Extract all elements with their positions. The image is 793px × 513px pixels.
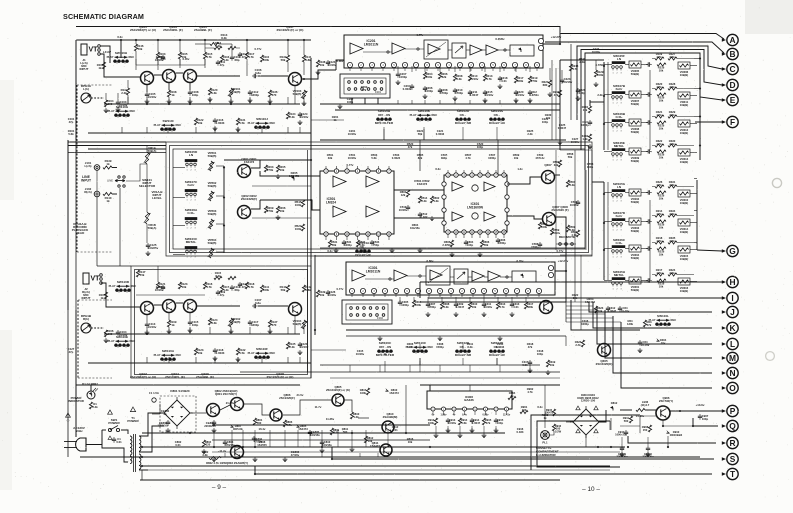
IC601 components below	[450, 240, 453, 247]
wire selector to VR1A	[126, 164, 147, 181]
capacitor C108	[189, 90, 191, 92]
resistor R mid row 250	[657, 247, 666, 250]
wire to node T	[255, 466, 712, 474]
resistor R601 between ICs	[406, 190, 409, 197]
wire q107 input area	[316, 60, 319, 67]
svg-text:ILLUMINATOR: ILLUMINATOR	[536, 453, 557, 457]
wire mid rail 218	[252, 217, 311, 219]
ground under C220	[515, 98, 517, 100]
wire Q307 up	[555, 174, 560, 176]
svg-text:ON→: ON→	[494, 113, 501, 117]
wire bridge to Q906	[599, 410, 606, 422]
ground under CE910	[647, 452, 649, 454]
resistor R321	[655, 115, 664, 118]
svg-text:SW105HMETAL: SW105HMETAL	[613, 270, 625, 277]
op-amp U501a	[333, 176, 346, 187]
svg-text:REC: REC	[130, 109, 136, 113]
op-amp U301c boxed	[426, 266, 450, 285]
svg-text:REC: REC	[270, 121, 276, 125]
node O	[727, 382, 738, 393]
svg-text:R1426.8k: R1426.8k	[305, 285, 312, 292]
svg-text:C2071000p: C2071000p	[399, 72, 407, 79]
transistor Q105	[184, 70, 197, 83]
capacitor C223	[561, 78, 563, 80]
capacitor C106 coupling	[252, 75, 254, 77]
block U201 detector diode	[510, 45, 534, 56]
capacitor C117 lower	[249, 320, 251, 322]
resistor R109 lower	[167, 320, 170, 327]
node F	[727, 116, 738, 127]
svg-text:C1123300p: C1123300p	[251, 90, 259, 97]
ground under C226	[577, 96, 579, 98]
svg-text:R1342.2k: R1342.2k	[289, 112, 296, 119]
svg-text:R1161.2k: R1161.2k	[223, 55, 230, 62]
capacitor C810	[321, 440, 323, 442]
capacitor C120	[299, 112, 301, 114]
wire lower collector chain	[154, 304, 162, 306]
variable resistor VR302	[629, 189, 641, 196]
svg-text:R229100k: R229100k	[597, 70, 604, 77]
wire vertical bus d	[571, 300, 640, 330]
extra verticals right bottom	[647, 437, 649, 446]
wire Q308 to bus	[556, 217, 566, 256]
svg-text:– 9 –: – 9 –	[212, 484, 227, 491]
resistor R63	[643, 320, 646, 327]
transistor Q102	[141, 302, 154, 315]
resistor R229 right of IC	[594, 70, 597, 77]
svg-text:R1243.3k: R1243.3k	[211, 318, 218, 325]
resistor R334	[668, 214, 677, 217]
variable resistor VR1A	[145, 152, 148, 164]
wire to node F	[695, 121, 722, 123]
resistor R602	[430, 196, 433, 203]
wire bottom rail 452	[212, 451, 620, 453]
ground under C113	[146, 330, 148, 332]
svg-text:R6347k: R6347k	[646, 320, 652, 327]
wire to node Q	[693, 418, 718, 426]
node D	[727, 79, 738, 90]
variable resistor VR103	[302, 90, 305, 99]
variable resistor VR1B	[145, 212, 148, 224]
svg-text:1: 1	[612, 257, 613, 259]
resistor R136	[268, 90, 271, 97]
resistor R217	[514, 76, 517, 83]
ground under R108	[168, 99, 170, 101]
variable resistor VR102	[229, 318, 232, 327]
capacitor C118 lower	[214, 348, 216, 350]
svg-text:VR1B50k(A): VR1B50k(A)	[148, 223, 157, 230]
svg-text:R1174.7k: R1174.7k	[248, 52, 255, 59]
wire transistor emitter drops	[146, 85, 148, 93]
wire emitter rail bottom channel	[104, 333, 300, 335]
wire Q906 collector	[663, 420, 693, 426]
lower channel collector rail	[136, 294, 205, 296]
svg-text:R2083.3k: R2083.3k	[456, 74, 463, 81]
svg-text:F: F	[730, 117, 735, 127]
svg-text:1: 1	[612, 73, 613, 75]
capacitor C208	[439, 88, 441, 90]
block U301 detector diode	[512, 271, 536, 282]
resistor R206b	[276, 206, 279, 213]
svg-text:6.86v: 6.86v	[427, 259, 434, 263]
svg-text:N: N	[729, 368, 735, 378]
svg-text:C520100p: C520100p	[477, 142, 484, 149]
wire Q906 base feed	[640, 416, 656, 433]
svg-text:1.2v: 1.2v	[517, 167, 523, 171]
wire IC201 input	[336, 60, 344, 70]
wire IC601 top stubs	[447, 170, 449, 173]
svg-text:VR10456k(B): VR10456k(B)	[293, 319, 302, 326]
wire to node J	[589, 302, 712, 312]
svg-text:3: 3	[620, 289, 621, 291]
wire D910 drop	[667, 436, 669, 447]
svg-text:C202100p: C202100p	[347, 97, 354, 104]
svg-text:J: J	[730, 307, 735, 317]
svg-text:PLAY: PLAY	[154, 353, 161, 357]
transistor Q803	[231, 446, 244, 459]
op-amp U601b	[484, 182, 495, 191]
svg-text:6.35v: 6.35v	[517, 259, 524, 263]
wire row out 194	[690, 193, 697, 195]
resistor R322	[655, 144, 664, 147]
wire Q104 to Q106	[176, 302, 183, 304]
connector F202	[342, 300, 392, 324]
wire row out 124	[690, 123, 697, 125]
warning triangle AC	[66, 413, 71, 417]
transistor Q806	[270, 409, 282, 421]
transistor Q104	[163, 300, 176, 313]
wire rail under IC301	[346, 335, 566, 337]
svg-text:SCHEMATIC DIAGRAM: SCHEMATIC DIAGRAM	[63, 12, 144, 21]
wire Q105 out	[197, 75, 240, 77]
capacitor C64 lower	[619, 306, 621, 308]
wire right block bottom row links	[699, 122, 701, 160]
diode D810	[385, 388, 388, 391]
transistor Q308	[543, 213, 556, 226]
svg-text:D: D	[729, 80, 735, 90]
op-amp U201e	[486, 45, 498, 55]
IC U501 LM324 box	[320, 171, 394, 234]
wire VR50x to bus	[216, 165, 224, 167]
wire Q107 collector out	[302, 70, 336, 79]
bottom mid extra components	[546, 360, 549, 367]
variable resistor VR314	[678, 219, 690, 226]
svg-text:L4147: L4147	[103, 50, 112, 54]
wire row 66	[625, 64, 629, 66]
ground under R136	[269, 99, 271, 101]
resistor R110	[260, 55, 263, 62]
wire switch row drops IC201	[383, 127, 385, 140]
lamp PL1	[541, 431, 550, 440]
svg-text:6.86v: 6.86v	[337, 59, 344, 63]
wire Q201 collector	[251, 160, 260, 168]
fuse F1	[152, 398, 156, 402]
svg-text:PL1: PL1	[542, 441, 548, 445]
wire row 124	[625, 122, 629, 124]
resistor R210	[468, 74, 471, 81]
svg-text:SW110A: SW110A	[162, 349, 175, 353]
svg-text:6.3v: 6.3v	[435, 167, 441, 171]
ground under C105	[146, 99, 148, 101]
components under IC301	[399, 300, 401, 302]
resistor R104	[104, 100, 107, 107]
svg-text:3: 3	[620, 131, 621, 133]
node N	[727, 367, 738, 378]
svg-text:R802 4.7k 1/2W: R802 4.7k 1/2W	[206, 461, 226, 465]
wire mid right horizontals	[560, 149, 592, 151]
svg-text:B: B	[729, 49, 735, 59]
wire IC601 bottom drops	[447, 234, 449, 238]
node B	[727, 48, 738, 59]
op-amp U201b	[392, 43, 405, 54]
decorative	[745, 0, 793, 34]
svg-text:9.4v: 9.4v	[462, 414, 467, 417]
svg-text:REC: REC	[176, 123, 182, 127]
svg-text:C3074700p: C3074700p	[428, 302, 436, 309]
svg-text:3: 3	[620, 201, 621, 203]
svg-text:C558100p: C558100p	[587, 162, 594, 169]
wire IC601 to Q308	[507, 216, 542, 219]
capacitor C115 lower	[189, 320, 191, 322]
resistor R137 lower	[268, 320, 271, 327]
wire bottom rail 4	[80, 456, 700, 458]
capacitor C104 lower	[117, 330, 119, 332]
wire bottom rail 1	[212, 424, 430, 426]
svg-text:R1154.7k: R1154.7k	[206, 52, 213, 59]
capacitor C512	[419, 212, 421, 214]
wire feed column right of IC201	[570, 44, 572, 120]
wire bridge2 legs	[585, 435, 587, 447]
variable resistor VR311	[678, 92, 690, 99]
wire drops IC301 to rail	[399, 297, 401, 302]
node R	[727, 437, 738, 448]
variable resistor VR305	[629, 61, 641, 68]
resistor R206	[438, 72, 441, 79]
wire center loop mid	[170, 146, 589, 253]
wire center loop outer	[166, 142, 592, 256]
wire rail 365 bottom center	[320, 364, 540, 366]
resistor R mid row 153	[657, 150, 666, 153]
variable resistor VR307	[629, 91, 641, 98]
svg-text:R317560k: R317560k	[527, 302, 534, 309]
svg-text:1: 1	[186, 200, 187, 202]
ground under R120	[209, 97, 211, 99]
svg-text:C2084700p: C2084700p	[440, 88, 448, 95]
capacitor C121 lower	[299, 342, 301, 344]
svg-text:REC: REC	[129, 55, 135, 59]
wire to Q108	[258, 305, 288, 307]
capacitor CE801	[213, 420, 215, 422]
variable resistor VR312	[678, 120, 690, 127]
capacitor C row 153	[646, 151, 648, 153]
resistor R115	[203, 52, 206, 59]
capacitor C510	[407, 205, 409, 207]
svg-text:REC: REC	[176, 353, 182, 357]
transistor Q802	[207, 404, 220, 417]
svg-text:+13.6v: +13.6v	[696, 403, 705, 407]
node K	[727, 322, 738, 333]
resistor R103	[156, 52, 159, 59]
wire bottom rail 3	[142, 446, 625, 448]
node H	[727, 276, 738, 287]
capacitor CE909	[621, 446, 623, 448]
dashed box around bridge	[160, 396, 196, 432]
svg-text:+12.27v: +12.27v	[551, 35, 562, 39]
transistor Q201	[238, 165, 251, 178]
wires right power	[620, 425, 640, 427]
capacitor C row 250	[646, 248, 648, 250]
wire bottom center drops	[349, 365, 351, 372]
right of IC601 vertical wires	[591, 150, 593, 250]
svg-text:C534750p: C534750p	[373, 240, 380, 247]
resistor R801	[253, 418, 256, 425]
svg-text:DOLBY NR: DOLBY NR	[455, 121, 472, 125]
resistor R139 line	[103, 166, 112, 169]
ground under R205	[277, 174, 279, 176]
ground under R223	[549, 92, 551, 94]
svg-text:VR30950k(B): VR30950k(B)	[631, 156, 640, 163]
svg-text:R21010/16v: R21010/16v	[470, 74, 479, 81]
resistor R mid row 194	[657, 191, 666, 194]
variable resistor VR308	[629, 119, 641, 126]
svg-text:DOLBY NR: DOLBY NR	[455, 353, 472, 357]
ground under C125	[147, 251, 149, 253]
svg-text:OFF→ON: OFF→ON	[378, 113, 390, 117]
svg-text:C10510/16v: C10510/16v	[148, 92, 157, 99]
svg-text:C9160.033: C9160.033	[517, 427, 524, 434]
resistor R146	[134, 44, 137, 51]
variable resistor VR303	[629, 218, 641, 225]
wire rail under center ICs	[320, 247, 585, 249]
svg-text:SW110E: SW110E	[116, 335, 128, 339]
IC601 pins	[446, 173, 450, 177]
diode D812	[610, 406, 613, 409]
variable resistor VR301	[629, 277, 641, 284]
IC301 top right pins	[548, 265, 553, 270]
jack J102	[94, 191, 100, 197]
svg-text:O: O	[729, 383, 736, 393]
resistor R545	[301, 200, 304, 207]
resistor R102	[126, 88, 129, 95]
svg-text:J102R(ch): J102R(ch)	[84, 187, 91, 194]
svg-text:1: 1	[186, 257, 187, 259]
ground under CE801	[213, 428, 215, 430]
capacitor C row 124	[646, 122, 648, 124]
svg-text:C2104700p: C2104700p	[455, 88, 463, 95]
resistor R335	[668, 241, 677, 244]
svg-text:Q307 Q3082SC2320 (F): Q307 Q3082SC2320 (F)	[551, 205, 568, 212]
svg-text:L: L	[730, 339, 735, 349]
svg-text:C604100p: C604100p	[467, 240, 474, 247]
wire pin drops	[349, 68, 351, 71]
svg-text:VR50450k(B): VR50450k(B)	[208, 238, 217, 245]
capacitor CE3 feed	[589, 120, 591, 122]
wire IC301 out right	[555, 256, 566, 271]
IC201 pin row	[347, 62, 352, 67]
svg-text:R110100k: R110100k	[263, 55, 270, 62]
wire to node H	[420, 281, 722, 283]
ground power extra	[167, 428, 169, 430]
svg-text:2: 2	[616, 201, 617, 203]
svg-text:SW110L: SW110L	[657, 314, 669, 318]
svg-text:Q: Q	[729, 421, 736, 431]
svg-text:SW105CMETAL: SW105CMETAL	[185, 237, 198, 244]
resistor R142 lower	[302, 285, 305, 292]
svg-text:A: A	[729, 35, 735, 45]
resistor R140 line	[103, 192, 112, 195]
op-amp U501c	[333, 206, 346, 217]
wire center vertical 307	[307, 150, 309, 372]
resistor R514	[418, 196, 421, 203]
wire power drops	[213, 430, 215, 447]
wire right block left bus mid	[603, 182, 605, 280]
svg-text:VR30750k(B): VR30750k(B)	[631, 99, 640, 106]
wire mid bus 3	[88, 148, 166, 150]
wire right block second bus	[607, 62, 609, 150]
wire eq block inner verticals	[649, 70, 651, 150]
wire ground rail top channel	[88, 132, 311, 134]
ground under VR103	[303, 101, 305, 103]
svg-text:DOLBY HX: DOLBY HX	[489, 353, 506, 357]
wire eq mid block feed	[592, 181, 604, 183]
wire left frame lower	[67, 140, 69, 310]
capacitor C312 lower	[607, 306, 609, 308]
wire to node S	[332, 452, 714, 459]
resistor R916 lamp	[552, 424, 555, 431]
variable resistor VR304	[629, 245, 641, 252]
diode D205	[291, 176, 294, 179]
wire vertical bus c	[420, 256, 566, 302]
wire left channel to center loop	[310, 58, 312, 150]
wire bottom rail 2	[142, 432, 505, 434]
wire power top rail	[76, 384, 300, 386]
resistor R mid row 282	[657, 279, 666, 282]
wire CE drops	[621, 452, 623, 457]
wire bottom rail 5	[142, 465, 610, 467]
resistor R117	[245, 52, 248, 59]
left channel collector rail	[136, 64, 205, 66]
svg-text:2: 2	[190, 170, 191, 172]
capacitor C112	[249, 90, 251, 92]
IC501 components below	[328, 240, 331, 247]
svg-text:T: T	[730, 469, 736, 479]
wire head dashed box bottom	[77, 251, 112, 253]
IC U301 LM1011N box	[346, 262, 555, 295]
svg-text:–11.4v: –11.4v	[218, 449, 227, 453]
svg-text:REC: REC	[130, 339, 136, 343]
wire bottom rail 470	[142, 469, 610, 471]
bottom mid sw row wires	[419, 344, 421, 352]
node A	[727, 34, 738, 45]
resistor R328	[668, 87, 677, 90]
ground under R109	[168, 329, 170, 331]
ground under C218	[499, 84, 501, 86]
svg-text:SW104A: SW104A	[357, 241, 370, 245]
svg-text:11.36v: 11.36v	[326, 417, 335, 421]
op-amp U601c	[452, 212, 463, 221]
transistor Q306 rec mute	[598, 344, 611, 357]
resistor R135 lower	[286, 342, 289, 349]
wire right top bus	[699, 60, 701, 160]
wire to node B	[545, 42, 724, 53]
svg-text:IC906BA336: IC906BA336	[464, 395, 474, 402]
wire lower channel loop	[131, 266, 311, 378]
svg-text:0.77v: 0.77v	[337, 287, 344, 291]
resistor R301 feed	[588, 106, 591, 113]
node J	[727, 306, 738, 317]
wire Q103 to Q105	[176, 72, 183, 74]
svg-text:G: G	[729, 246, 736, 256]
